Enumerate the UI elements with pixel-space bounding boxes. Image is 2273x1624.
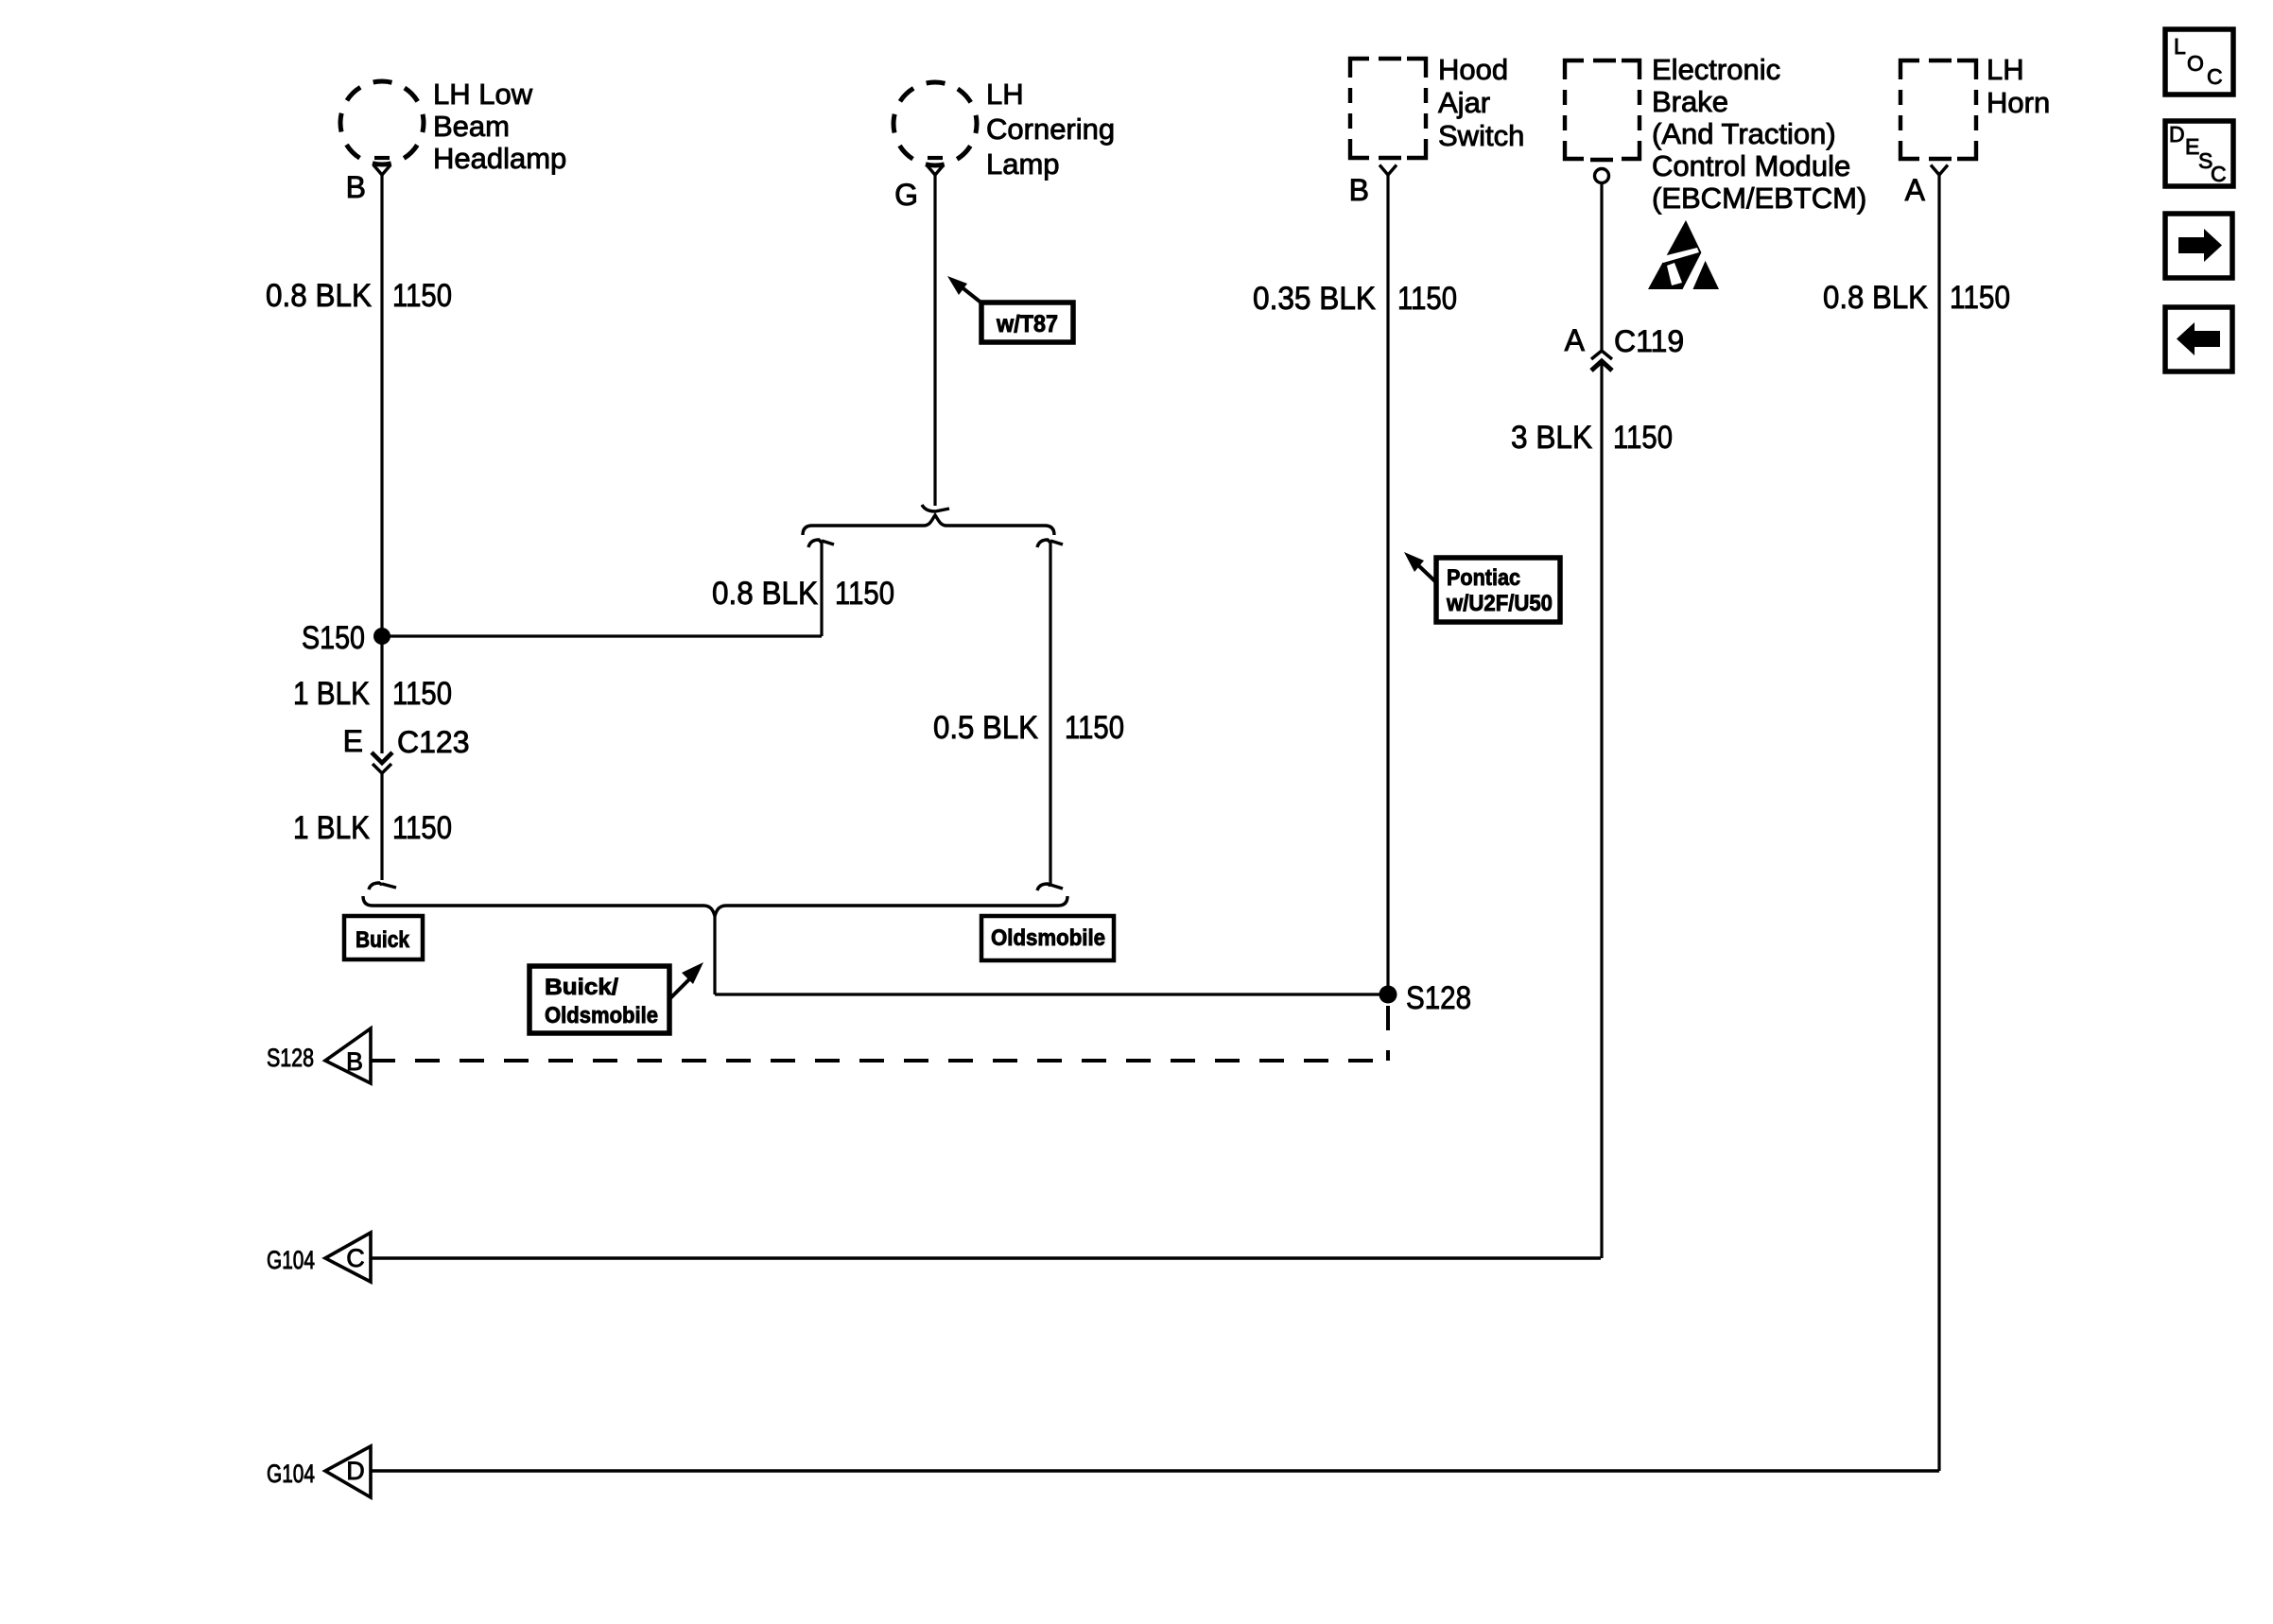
svg-text:Buick: Buick — [356, 927, 410, 953]
sidebar button previous arrow — [2165, 307, 2232, 371]
callout box w/T87 — [981, 302, 1073, 342]
leader arrow from Buick/Oldsmobile box to wire — [669, 976, 693, 999]
svg-text:0.8 BLK: 0.8 BLK — [266, 278, 372, 314]
svg-text:1150: 1150 — [392, 810, 452, 846]
svg-text:S128: S128 — [267, 1044, 314, 1072]
svg-text:Ajar: Ajar — [1438, 86, 1490, 119]
svg-text:3 BLK: 3 BLK — [1511, 420, 1592, 456]
horn LH Horn (dashed box) — [1900, 60, 1976, 159]
wire end hook bottom of right branch — [1037, 884, 1050, 890]
wire 3 BLK 1150 from C119 down to G104 C run — [1600, 363, 1603, 1258]
svg-text:Oldsmobile: Oldsmobile — [991, 925, 1105, 951]
svg-text:L: L — [2174, 34, 2186, 59]
wire 0.8 BLK 1150 from LH Horn to G104 D run — [1937, 175, 1940, 1471]
variant box Buick — [344, 916, 423, 959]
lamp LH Cornering Lamp (dashed circle) — [894, 82, 977, 165]
svg-text:0.8 BLK: 0.8 BLK — [712, 576, 818, 612]
svg-text:C123: C123 — [397, 725, 470, 759]
svg-text:S128: S128 — [1406, 980, 1471, 1016]
svg-text:D: D — [346, 1457, 365, 1485]
svg-text:1150: 1150 — [1950, 280, 2010, 316]
pin B connector V of Hood Ajar Switch — [1379, 165, 1397, 176]
svg-text:Switch: Switch — [1438, 119, 1524, 152]
svg-text:Cornering: Cornering — [986, 112, 1115, 146]
svg-text:Oldsmobile: Oldsmobile — [545, 1003, 658, 1028]
svg-text:E: E — [343, 724, 363, 758]
wire from EBCM pin down to connector C119 — [1600, 183, 1603, 350]
svg-text:D: D — [2169, 122, 2185, 147]
svg-text:B: B — [346, 1047, 363, 1076]
svg-text:Control Module: Control Module — [1652, 149, 1850, 182]
svg-text:C: C — [346, 1244, 365, 1272]
upper brace grouping Buick/Oldsmobile branches — [803, 515, 1054, 535]
svg-text:1150: 1150 — [835, 576, 894, 612]
svg-text:1150: 1150 — [392, 278, 452, 314]
svg-text:Electronic: Electronic — [1652, 53, 1780, 86]
connector C123 pin E (male arrow down into female chevron) — [372, 752, 392, 763]
svg-text:Horn: Horn — [1987, 86, 2050, 119]
switch Hood Ajar Switch (dashed box) — [1350, 59, 1426, 158]
variant box Oldsmobile — [981, 916, 1114, 960]
wire from S150 to left branch — [382, 634, 822, 637]
svg-text:w/T87: w/T87 — [996, 311, 1058, 337]
wire horizontal run to splice S128 — [715, 993, 1388, 995]
svg-text:B: B — [1349, 173, 1369, 207]
pin circle of EBCM ground output — [1595, 169, 1609, 183]
svg-text:(And Traction): (And Traction) — [1652, 117, 1836, 150]
off-page connector G104 D (triangle) — [325, 1446, 371, 1497]
svg-text:0.5 BLK: 0.5 BLK — [933, 710, 1038, 746]
sidebar button next arrow — [2165, 214, 2232, 278]
svg-text:1150: 1150 — [1613, 420, 1673, 456]
svg-text:Pontiac: Pontiac — [1447, 565, 1520, 591]
svg-text:C: C — [2207, 64, 2223, 89]
svg-text:Beam: Beam — [433, 110, 510, 143]
wire branch right (Oldsmobile) 0.5 BLK 1150 — [1037, 540, 1050, 547]
svg-text:O: O — [2187, 51, 2204, 76]
wire 1 BLK 1150 below S150 — [380, 636, 383, 753]
wire branch left (Buick) 0.8 BLK 1150 — [808, 540, 822, 547]
pin G connector V of LH Cornering Lamp — [928, 156, 943, 160]
wire 0.35 BLK 1150 from hood ajar switch to S128 — [1386, 175, 1389, 994]
wire end hook at cornering lamp wire bottom — [922, 505, 949, 511]
module Electronic Brake Control Module EBCM (dashed box) — [1565, 60, 1640, 160]
wire 0.8 BLK 1150 from headlamp B down to S150 — [380, 175, 383, 636]
svg-text:G104: G104 — [267, 1246, 315, 1274]
svg-text:1150: 1150 — [1065, 710, 1124, 746]
pin B connector V of LH Low Beam Headlamp — [374, 156, 390, 160]
svg-text:Hood: Hood — [1438, 53, 1508, 86]
pin A connector V of LH Horn — [1931, 165, 1948, 176]
svg-text:(EBCM/EBTCM): (EBCM/EBTCM) — [1652, 181, 1866, 215]
sidebar button LOC — [2165, 29, 2233, 95]
off-page connector G104 C (triangle) — [325, 1233, 371, 1282]
svg-text:1 BLK: 1 BLK — [293, 810, 370, 846]
svg-text:1150: 1150 — [1397, 281, 1457, 317]
ESD sensitivity symbol — [1648, 220, 1719, 290]
svg-text:A: A — [1905, 173, 1926, 207]
svg-text:A: A — [1565, 323, 1586, 357]
off-page connector S128 B (triangle) — [325, 1028, 371, 1083]
svg-text:w/U2F/U50: w/U2F/U50 — [1446, 591, 1553, 616]
svg-text:Headlamp: Headlamp — [433, 142, 566, 175]
lamp LH Low Beam Headlamp (dashed circle) — [340, 81, 424, 164]
sidebar button DESC — [2165, 121, 2233, 186]
wire from G104 C to EBCM ground run — [371, 1256, 1601, 1260]
svg-text:LH: LH — [1987, 53, 2024, 86]
svg-text:G: G — [894, 178, 918, 212]
svg-text:1 BLK: 1 BLK — [293, 676, 370, 712]
callout box Buick/Oldsmobile — [529, 966, 669, 1033]
wire 1 BLK 1150 below C123 — [380, 773, 383, 880]
svg-text:S150: S150 — [302, 620, 365, 656]
wire from G104 D to LH Horn run — [371, 1469, 1939, 1473]
svg-text:0.8 BLK: 0.8 BLK — [1823, 280, 1928, 316]
svg-text:1150: 1150 — [392, 676, 452, 712]
svg-text:Lamp: Lamp — [986, 147, 1060, 181]
svg-text:G104: G104 — [267, 1460, 315, 1488]
svg-text:LH Low: LH Low — [433, 78, 533, 111]
svg-text:LH: LH — [986, 78, 1024, 111]
svg-text:B: B — [346, 170, 366, 204]
connector C119 pin A (female chevron over male arrow up) — [1591, 351, 1612, 359]
callout box Pontiac w/U2F/U50 — [1436, 558, 1560, 622]
svg-text:Brake: Brake — [1652, 85, 1728, 118]
leader arrow from w/T87 box to cornering lamp wire — [961, 286, 983, 304]
dashed wire from S128 down and left to off-page connector — [1386, 1006, 1390, 1061]
wire from lower brace bump down to S128 horizontal run — [713, 916, 716, 994]
splice S128 junction dot — [1379, 986, 1397, 1004]
wire end hook above lower brace — [369, 883, 382, 890]
svg-text:C119: C119 — [1614, 324, 1684, 358]
wire from cornering lamp G down to brace — [933, 175, 936, 506]
lower brace grouping bottoms of Buick / Oldsmobile wires — [363, 896, 1067, 916]
svg-text:C: C — [2211, 162, 2227, 186]
svg-text:Buick/: Buick/ — [545, 975, 618, 1000]
splice S150 junction dot — [373, 628, 390, 645]
svg-text:0.35 BLK: 0.35 BLK — [1253, 281, 1376, 317]
leader arrow from Pontiac box to hood ajar wire — [1418, 565, 1437, 583]
